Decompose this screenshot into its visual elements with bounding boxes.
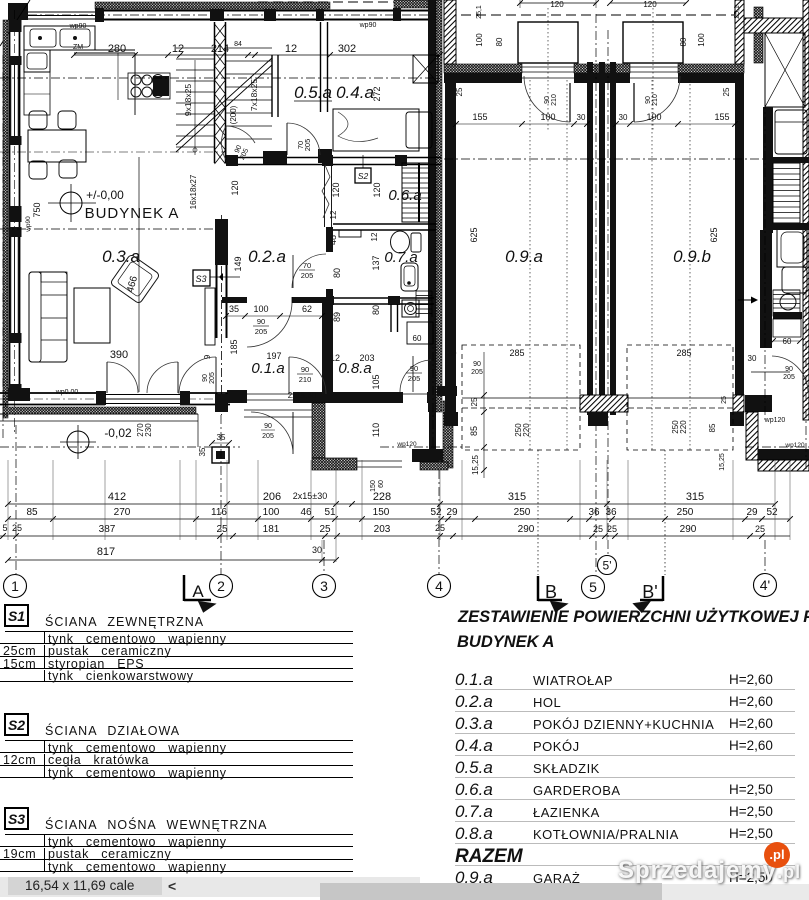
svg-text:16x18x27: 16x18x27 [189,174,198,209]
svg-text:35: 35 [229,304,239,314]
svg-text:203: 203 [374,524,391,535]
svg-text:12: 12 [370,232,379,241]
svg-text:90: 90 [473,361,481,368]
svg-text:12: 12 [330,353,340,363]
svg-text:466: 466 [125,274,140,293]
svg-text:25: 25 [12,523,22,533]
svg-text:155: 155 [472,112,487,122]
svg-text:110: 110 [371,423,381,437]
svg-text:+/-0,00: +/-0,00 [86,188,124,202]
svg-text:S3: S3 [195,274,206,284]
svg-text:203: 203 [359,353,374,363]
svg-text:390: 390 [110,349,128,361]
svg-text:wp120: wp120 [784,442,805,449]
svg-text:12: 12 [172,43,184,55]
svg-text:25: 25 [216,524,228,535]
svg-text:12: 12 [329,210,338,219]
svg-text:181: 181 [263,524,280,535]
svg-text:2x15±30: 2x15±30 [293,491,327,501]
svg-text:9x18x25: 9x18x25 [183,84,193,116]
svg-text:150: 150 [373,507,390,518]
svg-text:S2: S2 [358,171,369,181]
svg-text:29: 29 [746,507,758,518]
svg-text:0.5.a: 0.5.a [294,83,332,102]
svg-text:100: 100 [253,304,268,314]
svg-text:120: 120 [550,0,564,9]
svg-text:817: 817 [97,546,115,558]
svg-text:25,1: 25,1 [476,5,483,19]
svg-text:0.1.a: 0.1.a [251,360,284,377]
svg-text:205: 205 [408,374,421,383]
svg-text:315: 315 [508,491,526,503]
svg-text:0.3.a: 0.3.a [102,247,140,266]
svg-text:60: 60 [378,480,385,488]
svg-text:120: 120 [331,182,341,197]
svg-text:100: 100 [475,33,484,47]
svg-text:90: 90 [264,423,272,430]
svg-text:46: 46 [300,507,312,518]
svg-text:90: 90 [645,96,652,104]
svg-text:214: 214 [211,43,229,55]
svg-text:4': 4' [760,577,770,593]
svg-text:25: 25 [593,524,603,534]
svg-text:290: 290 [680,524,697,535]
svg-text:250: 250 [514,507,531,518]
svg-text:205: 205 [262,433,274,440]
svg-text:285: 285 [509,348,524,358]
svg-text:272: 272 [372,86,382,101]
svg-text:302: 302 [338,43,356,55]
svg-text:wp120: wp120 [396,441,417,448]
svg-text:80: 80 [679,37,688,46]
svg-text:12: 12 [285,43,297,55]
svg-text:85: 85 [469,426,479,436]
svg-text:100: 100 [263,507,280,518]
svg-text:315: 315 [686,491,704,503]
svg-text:52: 52 [766,507,778,518]
svg-text:1: 1 [11,578,19,594]
svg-text:149: 149 [233,256,243,271]
svg-text:412: 412 [108,491,126,503]
svg-text:2x15,30: 2x15,30 [288,391,317,400]
svg-text:89: 89 [332,312,342,322]
svg-text:wp90: wp90 [69,23,87,30]
svg-text:205: 205 [255,327,268,336]
svg-text:25: 25 [470,397,479,406]
svg-text:220: 220 [522,423,531,437]
svg-text:-0,02: -0,02 [104,426,132,440]
svg-text:80: 80 [332,268,342,278]
svg-text:5': 5' [603,558,612,572]
svg-text:30: 30 [748,354,757,363]
svg-text:290: 290 [518,524,535,535]
svg-text:205: 205 [303,139,312,152]
svg-text:105: 105 [371,374,381,389]
svg-text:62: 62 [302,304,312,314]
svg-text:205: 205 [301,271,314,280]
svg-text:60: 60 [413,334,422,343]
svg-text:250: 250 [677,507,694,518]
svg-text:0.9.b: 0.9.b [673,247,711,266]
svg-text:625: 625 [469,227,479,242]
svg-text:270: 270 [114,507,131,518]
svg-text:51: 51 [324,507,336,518]
svg-text:30: 30 [619,113,628,122]
svg-text:100: 100 [540,112,555,122]
svg-text:85: 85 [26,507,38,518]
svg-text:wp0.00: wp0.00 [55,389,79,396]
svg-text:120: 120 [230,180,240,195]
svg-text:25: 25 [607,524,617,534]
svg-text:70: 70 [303,261,311,270]
svg-text:BUDYNEK A: BUDYNEK A [85,205,180,222]
svg-text:(200): (200) [229,105,238,124]
svg-text:25: 25 [319,524,331,535]
svg-text:80: 80 [495,37,504,46]
svg-text:205: 205 [783,374,795,381]
svg-text:52: 52 [430,507,442,518]
svg-text:ZM: ZM [73,44,83,51]
svg-text:0.9.a: 0.9.a [505,247,543,266]
svg-text:30: 30 [312,545,322,555]
svg-text:90: 90 [410,364,418,373]
svg-text:29: 29 [446,507,458,518]
svg-text:228: 228 [373,491,391,503]
svg-text:90: 90 [202,374,209,382]
svg-text:120: 120 [643,0,657,9]
svg-text:90: 90 [257,317,265,326]
svg-text:48: 48 [328,235,338,245]
svg-text:205: 205 [209,372,216,384]
svg-text:230: 230 [144,423,153,437]
svg-text:wp120: wp120 [764,417,786,424]
svg-text:280: 280 [108,43,126,55]
svg-text:85: 85 [708,423,717,432]
svg-text:2: 2 [217,578,225,594]
svg-text:25,1: 25,1 [734,5,741,19]
svg-text:100: 100 [697,33,706,47]
svg-text:90: 90 [785,366,793,373]
svg-text:625: 625 [709,227,719,242]
svg-text:B: B [545,582,557,602]
svg-text:220: 220 [679,420,688,434]
svg-text:205: 205 [471,369,483,376]
svg-text:285: 285 [676,348,691,358]
svg-text:wp90: wp90 [25,216,32,233]
svg-text:25: 25 [755,524,765,534]
svg-text:36: 36 [588,507,600,518]
svg-text:35: 35 [198,447,207,456]
svg-text:25: 25 [722,87,731,96]
svg-text:30: 30 [448,349,457,358]
svg-text:750: 750 [32,202,42,217]
svg-text:7x18x25: 7x18x25 [249,79,259,111]
svg-text:197: 197 [266,351,281,361]
svg-text:185: 185 [229,339,239,354]
svg-text:A: A [192,582,204,601]
svg-text:4: 4 [435,578,443,594]
svg-text:0.2.a: 0.2.a [248,247,286,266]
svg-text:90: 90 [544,96,551,104]
svg-text:60: 60 [783,337,792,346]
svg-text:155: 155 [714,112,729,122]
svg-text:B': B' [642,582,657,602]
svg-text:5: 5 [2,523,7,533]
svg-text:0.6.a: 0.6.a [388,187,421,204]
svg-text:5: 5 [589,579,597,595]
svg-text:206: 206 [263,491,281,503]
svg-text:387: 387 [99,524,116,535]
svg-text:15,25: 15,25 [719,453,726,471]
svg-text:15,25: 15,25 [471,454,480,475]
svg-text:80: 80 [371,305,381,315]
svg-text:120: 120 [372,182,382,197]
svg-text:210: 210 [299,375,312,384]
svg-text:25: 25 [721,396,728,404]
svg-text:25: 25 [455,87,464,96]
svg-text:116: 116 [211,507,227,518]
svg-text:137: 137 [371,255,381,270]
svg-text:wp90: wp90 [359,22,377,29]
svg-text:90: 90 [301,365,309,374]
svg-text:0.7.a: 0.7.a [384,249,417,266]
svg-text:210: 210 [551,94,558,106]
svg-text:30: 30 [577,113,586,122]
svg-text:100: 100 [646,112,661,122]
svg-text:3: 3 [320,578,328,594]
svg-text:0.4.a: 0.4.a [336,83,374,102]
svg-text:84: 84 [234,41,242,48]
